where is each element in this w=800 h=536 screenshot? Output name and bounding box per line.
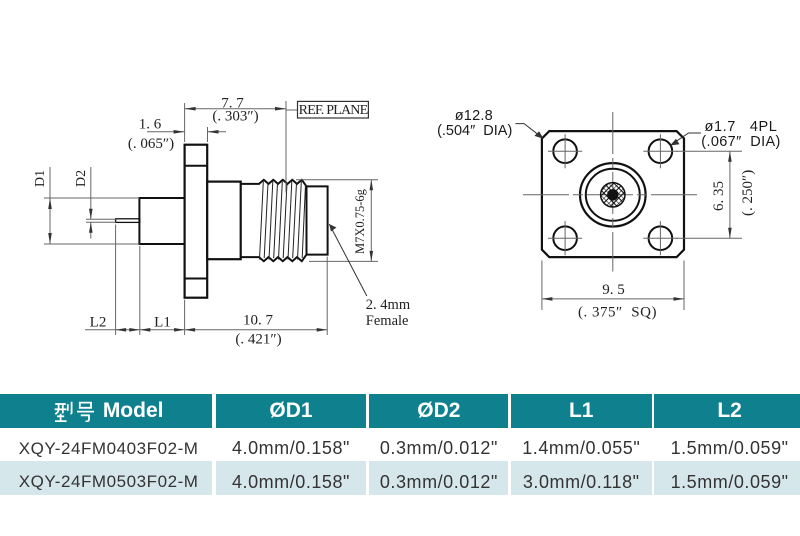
svg-text:M7X0.75-6g: M7X0.75-6g (353, 188, 367, 254)
svg-text:(. 375″ SQ): (. 375″ SQ) (578, 305, 657, 321)
center connector outer circle (580, 163, 646, 226)
technical drawing SVG (0, 0, 800, 392)
svg-text:(. 065″): (. 065″) (128, 136, 174, 152)
svg-text:ø12.8: ø12.8 (455, 108, 493, 124)
svg-text:D1: D1 (33, 170, 48, 187)
dimension 7.7 extension line left (184, 103, 186, 142)
flange inner line top (185, 165, 208, 167)
dimension 9.5 (541, 261, 543, 311)
ref plane vertical line (285, 101, 287, 193)
dimension 1.6 (207, 127, 209, 142)
svg-text:L1: L1 (154, 315, 171, 331)
svg-text:9. 5: 9. 5 (602, 282, 625, 298)
center connector inner circle (586, 169, 640, 221)
hole BR (643, 221, 677, 255)
table row 2 (0, 461, 800, 495)
hole BL (548, 221, 582, 255)
REF. PLANE box (286, 109, 298, 111)
table header row (0, 394, 800, 428)
hole TR (643, 134, 677, 168)
svg-text:(.504″ DIA): (.504″ DIA) (437, 123, 512, 139)
svg-text:6. 35: 6. 35 (711, 181, 727, 211)
svg-text:D2: D2 (74, 170, 89, 187)
svg-text:(. 250″): (. 250″) (740, 170, 756, 216)
square flange with chamfered corners (542, 131, 684, 257)
center pin (116, 219, 140, 223)
long centerline vertical (612, 112, 614, 272)
bottom dim line (85, 329, 327, 331)
flange inner line bottom (185, 278, 208, 280)
svg-text:ø1.7 4PL: ø1.7 4PL (705, 119, 778, 135)
svg-text:REF. PLANE: REF. PLANE (299, 103, 368, 118)
leader for ø12.8 (515, 124, 541, 137)
svg-text:1. 6: 1. 6 (139, 117, 162, 133)
center pin solid (607, 189, 618, 200)
10.7 arrows (185, 328, 196, 332)
svg-text:(. 303″): (. 303″) (212, 109, 258, 125)
long centerline horizontal (523, 194, 698, 196)
svg-text:Female: Female (366, 313, 409, 329)
svg-text:(. 421″): (. 421″) (235, 332, 281, 348)
svg-text:2. 4mm: 2. 4mm (366, 297, 411, 313)
leader 2.4mm Female (329, 224, 367, 296)
L2 arrows (116, 328, 127, 332)
dimension 6.35 (676, 150, 742, 152)
D2 dimension (90, 167, 92, 219)
svg-text:(.067″ DIA): (.067″ DIA) (701, 134, 780, 150)
型 (55, 403, 66, 405)
L1 arrows (140, 328, 151, 332)
dielectric hatched circle (601, 183, 625, 207)
dimension 7.7 dim line (185, 108, 286, 110)
glyph 型号 drawn as svg + Model (54, 401, 95, 422)
thread flank lines (260, 182, 306, 260)
thread profile outline (241, 180, 328, 261)
M7 thread dimension (296, 179, 378, 181)
hole TL (548, 134, 582, 168)
flange (side) (185, 145, 208, 298)
svg-text:L2: L2 (90, 315, 107, 331)
insulator block (139, 198, 184, 244)
body cylinder (207, 182, 241, 260)
号 (80, 403, 91, 408)
bottom dims extension lines (115, 225, 117, 336)
table row 1 (0, 428, 800, 461)
svg-text:10. 7: 10. 7 (243, 313, 274, 329)
leader for ø1.7 (673, 133, 702, 144)
D1 dimension (49, 167, 51, 244)
